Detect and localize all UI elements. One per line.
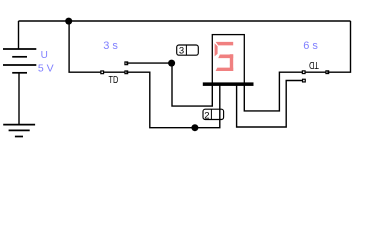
wire S1 open throw to node xyxy=(126,62,171,64)
wire S1 closed throw to display pin2 xyxy=(126,72,220,128)
display U1 box xyxy=(212,35,244,85)
switch S2 contact throw closed xyxy=(302,71,305,74)
display digit 5 segment F xyxy=(215,43,218,56)
svg-text:3: 3 xyxy=(179,45,184,56)
switch S1 contact common xyxy=(101,71,104,74)
wire junction to switch S1 common xyxy=(69,21,102,72)
node wire corner xyxy=(168,60,175,67)
wire battery positive lead xyxy=(18,21,20,49)
switch S2 contact throw open xyxy=(303,79,306,82)
ground xyxy=(3,125,35,137)
svg-text:3 s: 3 s xyxy=(103,40,118,52)
battery U 5V plates xyxy=(3,49,36,73)
svg-text:2: 2 xyxy=(204,110,209,121)
wire top rail xyxy=(19,20,351,22)
display digit 5 segment G xyxy=(218,55,233,59)
svg-text:5 V: 5 V xyxy=(38,63,54,75)
display digit 5 segment D xyxy=(216,68,234,71)
switch S1 contact throw open xyxy=(125,62,128,65)
display U1 base bar xyxy=(203,82,254,86)
node junction top rail xyxy=(65,18,72,25)
component counter 3 xyxy=(177,45,199,56)
switch S2 contact common xyxy=(326,71,329,74)
wire battery negative lead xyxy=(18,73,20,125)
svg-text:TD: TD xyxy=(109,75,119,86)
component counter 2 xyxy=(203,109,224,121)
wire S2 common to top rail xyxy=(327,21,350,72)
wire display pin4 to S2 closed throw xyxy=(244,72,303,111)
display digit 5 segment A xyxy=(216,42,234,46)
switch S1 blade xyxy=(102,71,126,73)
svg-text:6 s: 6 s xyxy=(303,40,318,52)
switch S1 contact throw closed xyxy=(125,71,128,74)
wire display pin3 to S2 open throw xyxy=(237,81,304,128)
node bottom wire xyxy=(191,124,198,131)
switch S2 blade xyxy=(303,71,327,73)
wire node to display pin1 xyxy=(172,63,212,106)
display digit 5 segment C xyxy=(230,54,233,71)
svg-text:U: U xyxy=(41,50,48,61)
svg-text:TD: TD xyxy=(309,59,319,70)
